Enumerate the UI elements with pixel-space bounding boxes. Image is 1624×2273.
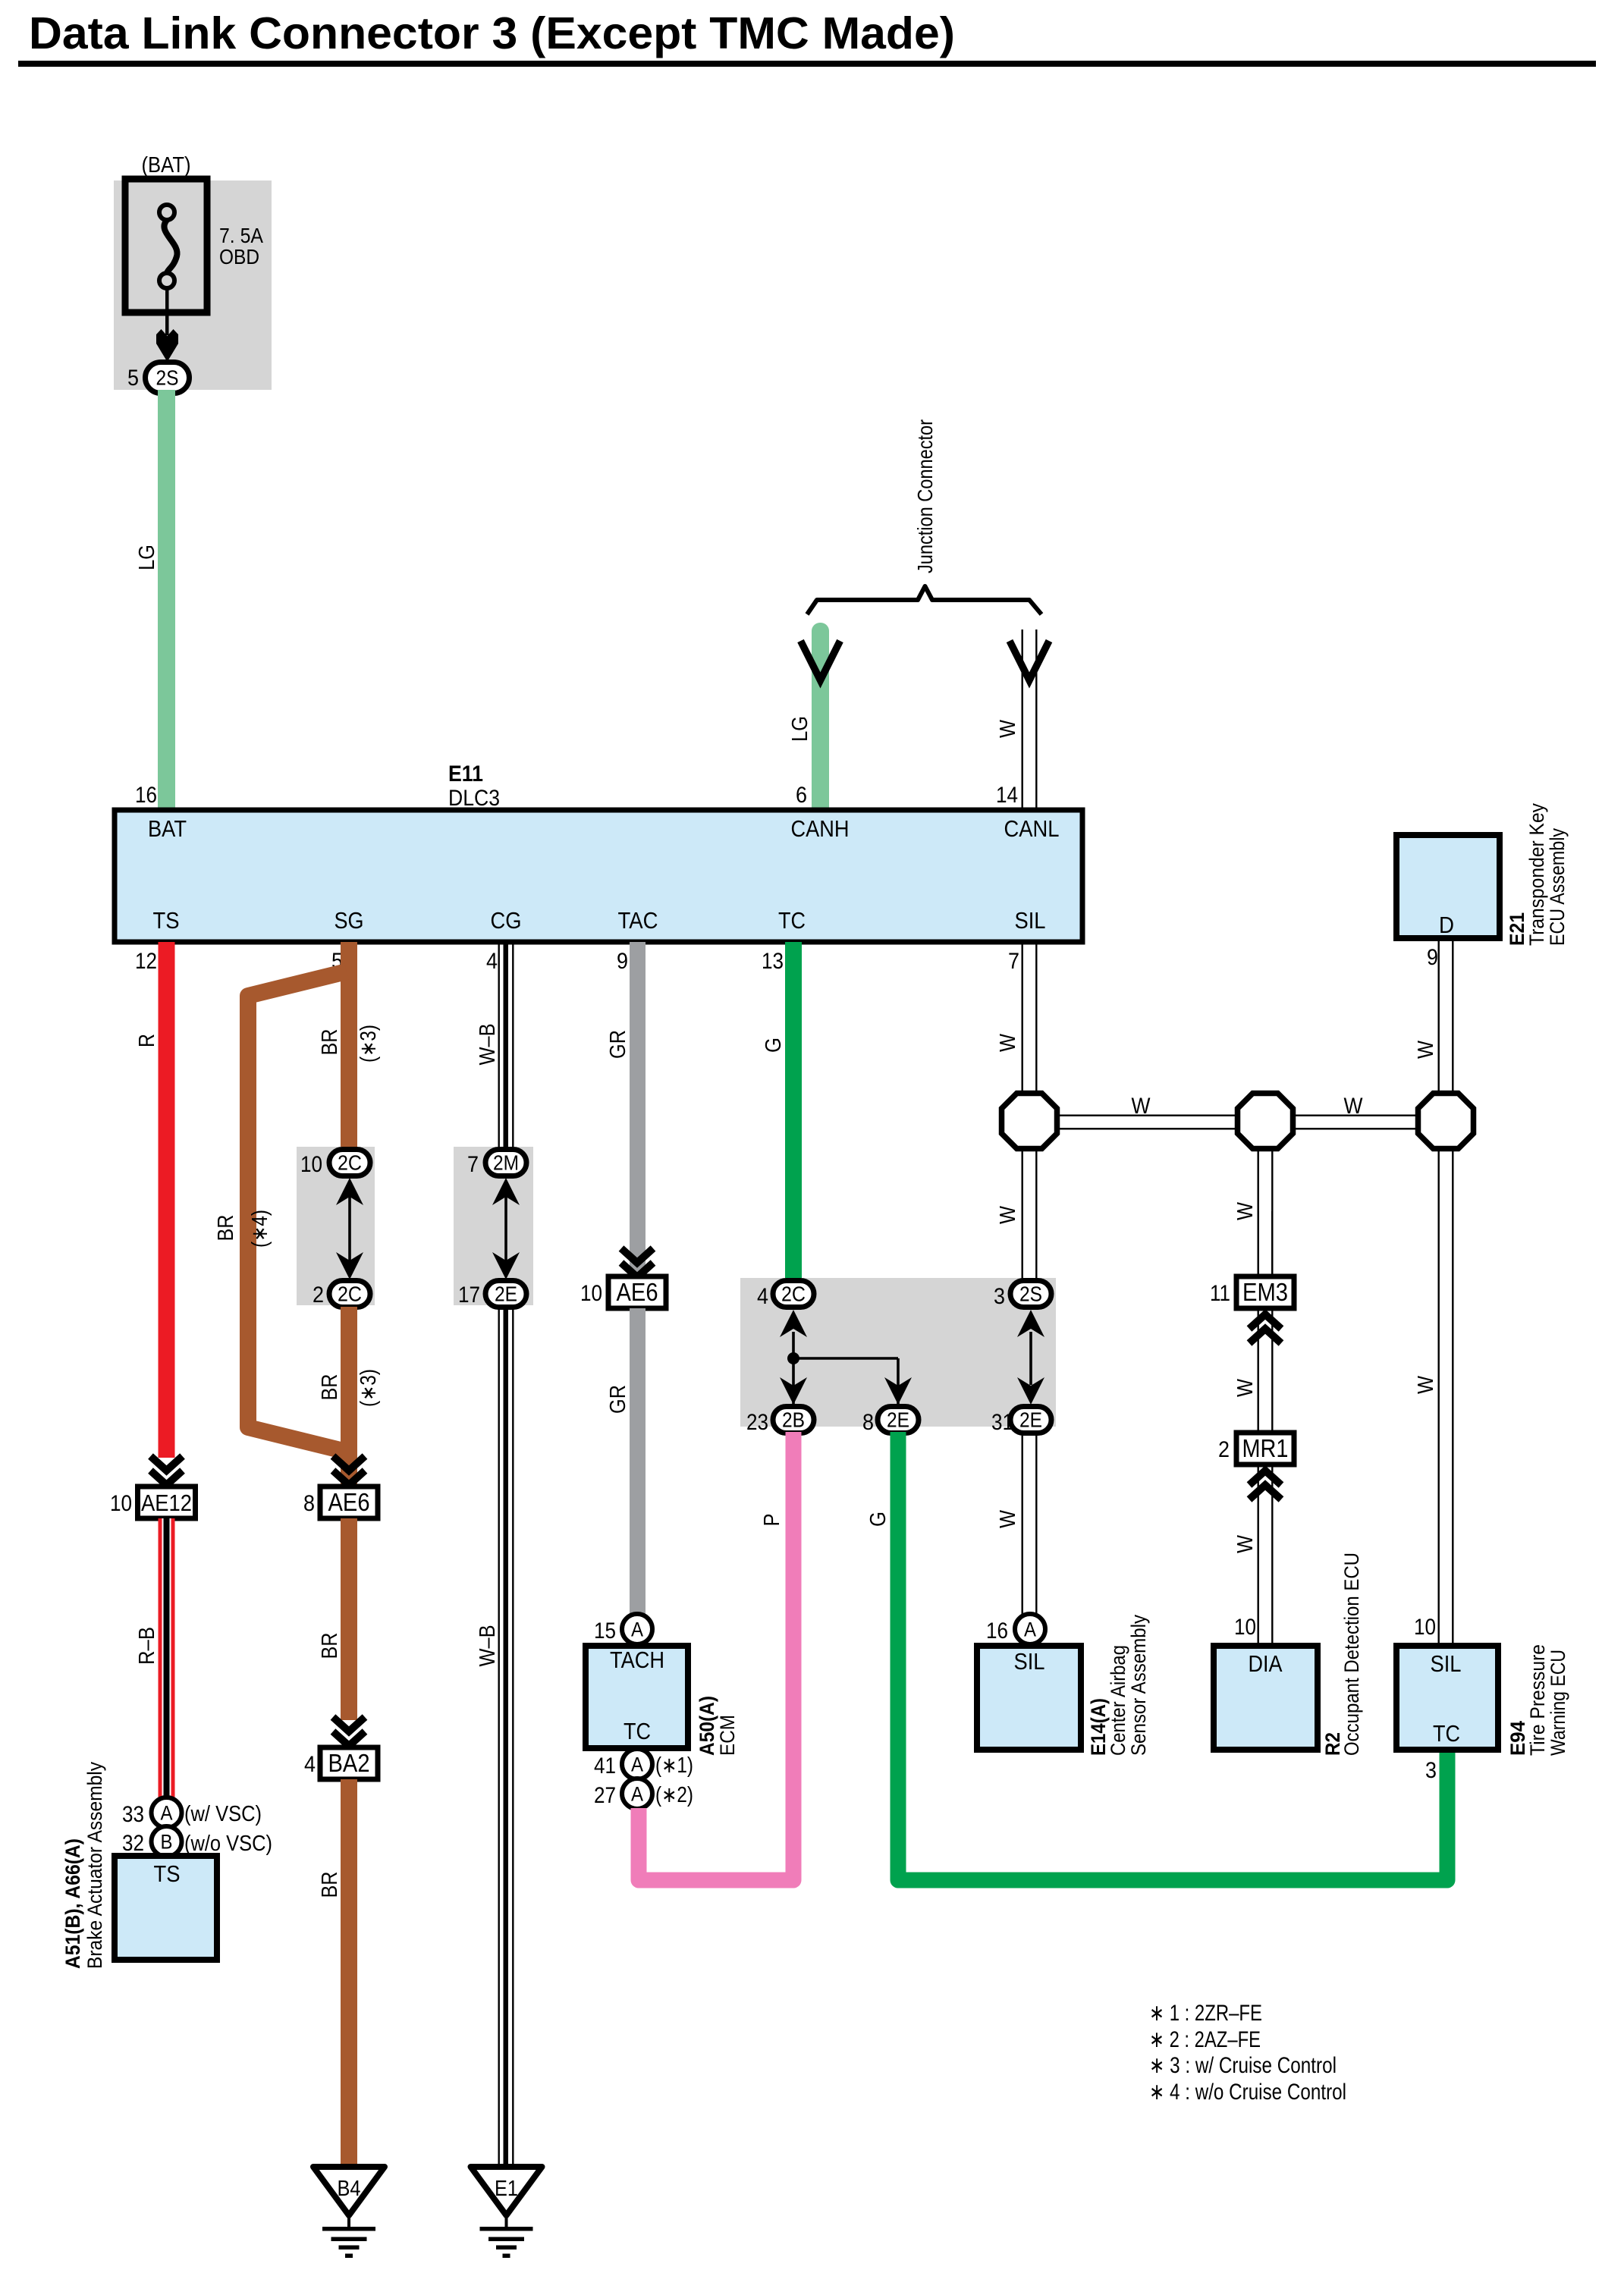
connector 2S pin 5 xyxy=(146,363,190,394)
svg-text:GR: GR xyxy=(606,1385,630,1414)
svg-text:10: 10 xyxy=(580,1281,602,1306)
svg-text:ECM: ECM xyxy=(716,1715,739,1756)
svg-text:41: 41 xyxy=(594,1753,616,1779)
wire W EM3 to MR1 xyxy=(1258,1308,1259,1433)
svg-text:(∗1): (∗1) xyxy=(655,1753,693,1778)
junction box 2C/2C background xyxy=(297,1147,375,1305)
connector AE6 pin 8 xyxy=(320,1487,378,1518)
svg-text:(∗4): (∗4) xyxy=(248,1210,272,1248)
svg-text:2C: 2C xyxy=(781,1282,806,1306)
svg-text:W: W xyxy=(1233,1201,1258,1220)
arrow lines 2C to 2B and 2E xyxy=(792,1332,795,1408)
svg-text:10: 10 xyxy=(1234,1615,1256,1640)
svg-text:BR: BR xyxy=(318,1374,342,1401)
svg-text:Occupant Detection ECU: Occupant Detection ECU xyxy=(1340,1552,1363,1756)
svg-text:TS: TS xyxy=(154,1860,181,1887)
svg-text:CANH: CANH xyxy=(791,815,850,842)
svg-text:W–B: W–B xyxy=(476,1625,500,1667)
connector 2C pin 10 xyxy=(329,1150,370,1176)
svg-text:A50(A): A50(A) xyxy=(696,1696,718,1756)
svg-text:2E: 2E xyxy=(495,1282,517,1306)
connector 2M pin 7 xyxy=(485,1150,526,1176)
svg-text:2B: 2B xyxy=(782,1408,805,1432)
svg-text:W: W xyxy=(1233,1534,1258,1553)
svg-text:2S: 2S xyxy=(1019,1282,1042,1306)
wire LG BAT xyxy=(158,390,175,808)
svg-text:Junction Connector: Junction Connector xyxy=(913,419,937,573)
wire BR SG main lower xyxy=(341,1307,357,1489)
wire W-B lower xyxy=(498,1307,500,2164)
svg-text:AE6: AE6 xyxy=(328,1488,370,1516)
svg-text:27: 27 xyxy=(594,1783,616,1808)
arrow into AE12 xyxy=(151,1456,183,1485)
svg-text:2M: 2M xyxy=(493,1151,519,1175)
connector AE6 pin 10 xyxy=(608,1276,666,1308)
junction box 2M/2E background xyxy=(454,1147,533,1305)
connector 2E pin 31 xyxy=(1010,1407,1051,1433)
svg-text:2E: 2E xyxy=(1019,1408,1042,1432)
svg-text:P: P xyxy=(760,1514,784,1527)
wire BR SG main upper xyxy=(341,942,357,1151)
svg-text:17: 17 xyxy=(458,1282,480,1308)
svg-text:BA2: BA2 xyxy=(328,1749,370,1777)
svg-text:4: 4 xyxy=(486,949,498,974)
arrow on CANL wire xyxy=(1010,641,1049,680)
arrow on CANH wire xyxy=(801,641,840,680)
svg-text:8: 8 xyxy=(862,1410,874,1435)
connector 2B pin 23 xyxy=(773,1407,814,1433)
svg-text:2C: 2C xyxy=(338,1282,362,1306)
wire R-B xyxy=(159,1518,175,1798)
svg-text:(w/ VSC): (w/ VSC) xyxy=(184,1802,262,1826)
wire W octagon3 to E94 xyxy=(1438,1147,1440,1646)
svg-text:∗ 4 : w/o Cruise Control: ∗ 4 : w/o Cruise Control xyxy=(1149,2080,1346,2105)
svg-text:BAT: BAT xyxy=(148,815,187,842)
svg-text:∗ 2 : 2AZ–FE: ∗ 2 : 2AZ–FE xyxy=(1149,2027,1261,2052)
arrow into AE6 xyxy=(333,1456,365,1485)
arrow out of EM3 xyxy=(1249,1314,1281,1343)
svg-text:BR: BR xyxy=(214,1215,238,1242)
svg-text:9: 9 xyxy=(1427,945,1438,970)
arrow into AE6 (10) xyxy=(621,1248,653,1277)
svg-text:TC: TC xyxy=(624,1718,651,1744)
svg-text:LG: LG xyxy=(135,545,159,570)
svg-text:Center Airbag: Center Airbag xyxy=(1107,1645,1129,1756)
block SIL E14(A) xyxy=(977,1646,1081,1750)
svg-text:D: D xyxy=(1439,912,1454,938)
wire LG CANH xyxy=(812,623,829,812)
svg-text:∗ 1 : 2ZR–FE: ∗ 1 : 2ZR–FE xyxy=(1149,2001,1262,2026)
svg-text:32: 32 xyxy=(122,1831,144,1856)
svg-text:(∗2): (∗2) xyxy=(655,1783,693,1807)
svg-text:TACH: TACH xyxy=(610,1647,664,1673)
svg-text:Transponder Key: Transponder Key xyxy=(1525,803,1548,946)
svg-text:7: 7 xyxy=(467,1152,479,1177)
wire P from 2B to ECM xyxy=(639,1432,793,1880)
svg-text:SG: SG xyxy=(335,907,364,934)
arrow line between 2C ovals xyxy=(348,1183,351,1274)
connector E11 DLC3 xyxy=(115,810,1082,942)
svg-text:G: G xyxy=(866,1512,891,1527)
block SIL/TC E94 xyxy=(1396,1646,1498,1750)
wire W octagon1 to octagon2 xyxy=(1057,1115,1238,1116)
svg-text:2S: 2S xyxy=(156,366,179,390)
svg-text:TC: TC xyxy=(778,907,806,934)
svg-text:(w/o VSC): (w/o VSC) xyxy=(184,1832,272,1856)
svg-text:A: A xyxy=(631,1618,643,1641)
svg-text:5: 5 xyxy=(127,366,139,391)
connector 2S pin 3 xyxy=(1010,1281,1051,1308)
wire GR lower xyxy=(630,1308,646,1615)
octagon joint 1 xyxy=(1002,1094,1057,1149)
octagon joint 3 xyxy=(1418,1094,1474,1149)
svg-text:B: B xyxy=(161,1831,173,1854)
connector BA2 pin 4 xyxy=(320,1747,378,1779)
wire W MR1 to DIA xyxy=(1258,1465,1259,1646)
arrow into BA2 xyxy=(333,1717,365,1746)
ground E1 xyxy=(471,2167,542,2215)
svg-text:W: W xyxy=(996,1509,1020,1528)
svg-text:BR: BR xyxy=(318,1029,342,1056)
svg-text:A: A xyxy=(161,1802,173,1825)
svg-text:A51(B), A66(A): A51(B), A66(A) xyxy=(61,1838,84,1969)
svg-text:R: R xyxy=(135,1034,159,1047)
wire fuse to 2S xyxy=(165,288,169,335)
svg-text:(∗3): (∗3) xyxy=(357,1025,381,1063)
wire W octagon2 to EM3 xyxy=(1258,1147,1259,1277)
block TACH/TC ECM xyxy=(586,1646,688,1748)
svg-text:AE6: AE6 xyxy=(617,1278,658,1306)
arrow out of MR1 xyxy=(1249,1471,1281,1499)
svg-text:11: 11 xyxy=(1210,1281,1230,1306)
svg-text:A: A xyxy=(631,1783,643,1806)
wire W CANL top xyxy=(1022,629,1023,808)
svg-text:8: 8 xyxy=(303,1491,315,1516)
svg-text:SIL: SIL xyxy=(1431,1650,1462,1677)
wire W below 2E 31 xyxy=(1022,1432,1023,1615)
svg-text:W–B: W–B xyxy=(476,1024,500,1066)
connector EM3 pin 11 xyxy=(1236,1276,1294,1308)
svg-text:ECU Assembly: ECU Assembly xyxy=(1546,828,1569,946)
svg-text:W: W xyxy=(1132,1094,1151,1119)
svg-text:(∗3): (∗3) xyxy=(357,1369,381,1407)
junction connector brace xyxy=(807,586,1041,614)
wire R TS xyxy=(159,942,175,1458)
fuse block background xyxy=(114,181,272,390)
svg-text:A: A xyxy=(631,1753,643,1776)
svg-text:Sensor Assembly: Sensor Assembly xyxy=(1127,1615,1150,1756)
svg-text:W: W xyxy=(1414,1040,1438,1059)
svg-text:SIL: SIL xyxy=(1015,907,1046,934)
svg-text:9: 9 xyxy=(617,949,628,974)
svg-text:4: 4 xyxy=(304,1752,316,1777)
wire W octagon1 to 2S xyxy=(1022,1147,1023,1282)
junction box 2C/2B/2E/2S/2E background xyxy=(740,1278,1056,1427)
svg-text:W: W xyxy=(1344,1094,1364,1119)
svg-text:CANL: CANL xyxy=(1004,815,1060,842)
svg-text:Warning ECU: Warning ECU xyxy=(1547,1650,1569,1756)
svg-text:OBD: OBD xyxy=(219,245,259,268)
svg-text:16: 16 xyxy=(986,1618,1008,1644)
terminal A 41 (*1) xyxy=(622,1749,652,1779)
wire W-B CG xyxy=(498,942,500,1151)
wire BR bypass branch *4 xyxy=(248,972,347,1452)
svg-text:MR1: MR1 xyxy=(1242,1434,1289,1462)
svg-text:16: 16 xyxy=(135,783,157,808)
svg-text:7: 7 xyxy=(1008,949,1019,974)
svg-text:LG: LG xyxy=(788,716,812,742)
svg-text:14: 14 xyxy=(996,783,1018,808)
svg-text:10: 10 xyxy=(110,1491,132,1516)
block D E21 transponder xyxy=(1396,835,1500,938)
svg-text:W: W xyxy=(996,719,1020,738)
svg-text:7. 5A: 7. 5A xyxy=(219,224,263,247)
connector 2E pin 17 xyxy=(485,1281,526,1308)
svg-text:W: W xyxy=(1414,1375,1438,1394)
svg-text:31: 31 xyxy=(991,1410,1013,1435)
svg-text:DIA: DIA xyxy=(1249,1650,1283,1677)
wire BR below BA2 xyxy=(341,1779,357,2169)
svg-text:2: 2 xyxy=(1218,1437,1230,1462)
fuse OBD 7.5A xyxy=(125,179,207,312)
svg-text:W: W xyxy=(996,1205,1020,1224)
connector 2C pin 2 xyxy=(329,1281,370,1308)
connector MR1 pin 2 xyxy=(1236,1433,1294,1465)
terminal A 15 xyxy=(622,1614,652,1644)
svg-text:12: 12 xyxy=(135,949,157,974)
wire G TC xyxy=(785,942,802,1281)
svg-text:Tire Pressure: Tire Pressure xyxy=(1526,1644,1549,1756)
wire G from 2E to E94 xyxy=(898,1432,1447,1880)
svg-text:TS: TS xyxy=(153,907,180,934)
svg-text:BR: BR xyxy=(318,1633,342,1659)
svg-text:G: G xyxy=(762,1038,786,1053)
svg-text:23: 23 xyxy=(746,1410,768,1435)
svg-text:A: A xyxy=(1024,1618,1036,1641)
wire W octagon2 to octagon3 xyxy=(1293,1115,1418,1116)
svg-text:SIL: SIL xyxy=(1014,1648,1045,1675)
svg-text:EM3: EM3 xyxy=(1242,1278,1288,1306)
svg-text:4: 4 xyxy=(757,1284,768,1309)
svg-text:CG: CG xyxy=(491,907,522,934)
svg-text:W: W xyxy=(1233,1378,1258,1397)
svg-text:BR: BR xyxy=(318,1872,342,1898)
svg-text:AE12: AE12 xyxy=(141,1490,192,1516)
svg-text:TAC: TAC xyxy=(618,907,658,934)
svg-text:2E: 2E xyxy=(887,1408,909,1432)
svg-text:(BAT): (BAT) xyxy=(142,153,191,177)
wire W CANL below DLC3 xyxy=(1022,942,1023,1095)
svg-text:B4: B4 xyxy=(338,2177,361,2201)
ground B4 xyxy=(313,2167,385,2215)
svg-text:13: 13 xyxy=(762,949,784,974)
wire W E21 to octagon3 xyxy=(1438,941,1440,1095)
terminal B 32 w/o VSC xyxy=(152,1826,182,1857)
svg-text:∗ 3 : w/ Cruise Control: ∗ 3 : w/ Cruise Control xyxy=(1149,2053,1337,2078)
svg-text:3: 3 xyxy=(1425,1758,1437,1783)
svg-text:GR: GR xyxy=(606,1030,630,1059)
svg-text:Brake Actuator Assembly: Brake Actuator Assembly xyxy=(83,1762,106,1969)
arrow line between 2M and 2E xyxy=(504,1183,507,1274)
wire GR TAC xyxy=(630,942,646,1277)
svg-text:R–B: R–B xyxy=(135,1627,159,1665)
svg-text:W: W xyxy=(996,1033,1020,1052)
terminal A 33 w/VSC xyxy=(152,1797,182,1828)
svg-text:E11: E11 xyxy=(448,761,483,786)
svg-text:15: 15 xyxy=(594,1618,616,1644)
svg-text:33: 33 xyxy=(122,1802,144,1827)
wire BR below AE6 xyxy=(341,1518,357,1720)
svg-text:2C: 2C xyxy=(338,1151,362,1175)
connector 2E pin 8 xyxy=(878,1407,919,1433)
svg-text:E1: E1 xyxy=(495,2177,518,2201)
svg-text:DLC3: DLC3 xyxy=(448,786,500,811)
octagon joint 2 xyxy=(1238,1094,1293,1149)
connector 2C pin 4 xyxy=(773,1281,814,1308)
terminal A 16 xyxy=(1015,1614,1045,1644)
svg-text:Data Link Connector 3 (Except: Data Link Connector 3 (Except TMC Made) xyxy=(29,8,955,58)
block DIA R2 xyxy=(1214,1646,1318,1750)
svg-text:10: 10 xyxy=(300,1152,322,1177)
svg-text:3: 3 xyxy=(994,1284,1005,1309)
terminal A 27 (*2) xyxy=(622,1779,652,1809)
connector AE12 pin 10 xyxy=(138,1487,196,1518)
arrow line 2S to 2E xyxy=(1029,1332,1032,1385)
svg-text:2: 2 xyxy=(313,1282,324,1308)
block TS brake actuator xyxy=(115,1856,217,1960)
svg-text:10: 10 xyxy=(1414,1615,1436,1640)
svg-text:6: 6 xyxy=(796,783,807,808)
svg-text:TC: TC xyxy=(1433,1720,1460,1747)
